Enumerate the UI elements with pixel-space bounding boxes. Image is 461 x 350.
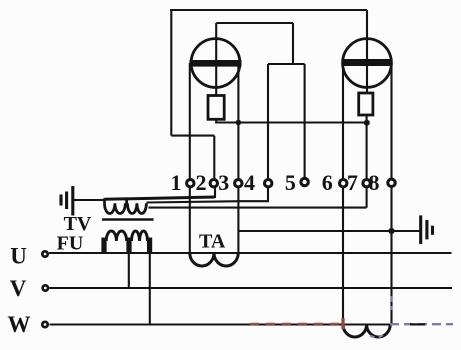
ground symbol right — [421, 215, 433, 244]
TV secondary winding arcs — [105, 198, 147, 213]
wire meter2 right current lead to terminal 8 and TA2 — [390, 63, 392, 325]
meter element 1 circle — [191, 39, 240, 88]
junction dot at R2 bottom lead — [364, 120, 370, 126]
current transformer TA1 secondary arcs — [190, 253, 238, 266]
watermark black dash in blue segment — [410, 323, 425, 325]
fuse FU element 3 — [147, 238, 152, 254]
svg-text:4: 4 — [244, 170, 255, 195]
svg-text:W: W — [8, 312, 31, 337]
wire terminal 4 upper column — [267, 64, 269, 183]
wire resistor R1 bottom lead — [216, 119, 367, 122]
meter element 1 voltage-coil vertical line — [215, 23, 217, 96]
wire resistor R2 bottom lead to terminal 7 — [366, 115, 368, 208]
svg-text:7: 7 — [347, 170, 358, 195]
watermark red blob at TA2 left junction — [341, 318, 345, 329]
watermark red dashes on W line — [250, 323, 344, 326]
watermark blue marks near TA2 right lead — [390, 296, 392, 310]
ground symbol left — [61, 186, 73, 216]
phase line U — [49, 252, 452, 254]
svg-text:FU: FU — [57, 233, 84, 255]
wire terminal 2 upper column — [213, 136, 215, 183]
TV primary winding arcs — [106, 231, 147, 241]
terminal 6 circle — [340, 180, 347, 187]
svg-text:8: 8 — [369, 170, 380, 195]
terminal 1 circle — [187, 180, 194, 187]
svg-text:6: 6 — [322, 170, 333, 195]
terminal 3 circle — [235, 180, 242, 187]
terminal 7 circle — [363, 180, 370, 187]
terminal 5 circle — [301, 178, 308, 185]
resistor R1 of meter1 voltage coil — [208, 96, 224, 120]
meter element 2 voltage-coil vertical line — [366, 10, 368, 93]
wire fuse2 down to V line — [128, 253, 130, 288]
wire horizontal to terminals 4 and 5 — [268, 63, 305, 65]
wire terminal 5 upper column — [304, 64, 306, 183]
terminal 8 circle — [388, 179, 395, 186]
wire top bus A left drop — [170, 9, 172, 136]
TV core line — [102, 218, 154, 221]
junction dot on terminal8 column at earth line — [388, 228, 394, 234]
wire meter1 right current lead to terminal 3 and TA1 — [237, 63, 239, 253]
fuse FU element 2 — [126, 238, 131, 254]
terminal 4 circle — [265, 180, 272, 187]
watermark blue dashes on W line right — [390, 323, 453, 325]
wire from TV lower right to terminal 7 — [149, 207, 367, 209]
svg-text:2: 2 — [196, 170, 207, 195]
wire bus B right drop — [292, 23, 294, 64]
svg-text:U: U — [10, 244, 27, 269]
phase terminal W — [42, 322, 47, 327]
current transformer TA2 secondary arcs — [343, 325, 390, 338]
fuse FU element 1 — [101, 238, 106, 254]
junction dot at terminal3 column and R1 lead — [236, 120, 242, 126]
meter element 2 circle — [343, 39, 392, 88]
voltage transformer TV secondary bus — [104, 197, 215, 199]
meter element 2 current-coil bar — [342, 59, 393, 66]
wire from TV right end up to terminal 4 — [147, 187, 269, 203]
svg-text:TA: TA — [199, 231, 226, 253]
wire meter2 left current lead to terminal 6 and TA2 — [342, 63, 344, 325]
phase terminal V — [43, 285, 48, 290]
resistor R2 of meter2 voltage coil — [359, 93, 373, 115]
wire terminal 2 lower stub to TV bus — [214, 187, 216, 198]
terminal 2 circle — [210, 180, 217, 187]
svg-text:1: 1 — [171, 170, 182, 195]
phase line V — [49, 287, 452, 289]
wire top bus A horizontal — [170, 9, 367, 11]
phase terminal U — [42, 251, 47, 256]
wire from A corner to terminal 2 column — [171, 135, 214, 137]
wire bus B horizontal — [216, 22, 293, 24]
svg-text:3: 3 — [218, 170, 229, 195]
ground lead wire left — [73, 199, 105, 201]
wire fuse3 down to W line — [149, 253, 151, 325]
svg-text:V: V — [10, 276, 27, 301]
svg-text:5: 5 — [285, 170, 296, 195]
earth line to right ground — [238, 230, 420, 232]
phase line W — [50, 323, 391, 325]
meter element 1 current-coil bar — [190, 60, 242, 67]
wire meter1 left current lead to terminal 1 and TA1 — [189, 63, 191, 253]
